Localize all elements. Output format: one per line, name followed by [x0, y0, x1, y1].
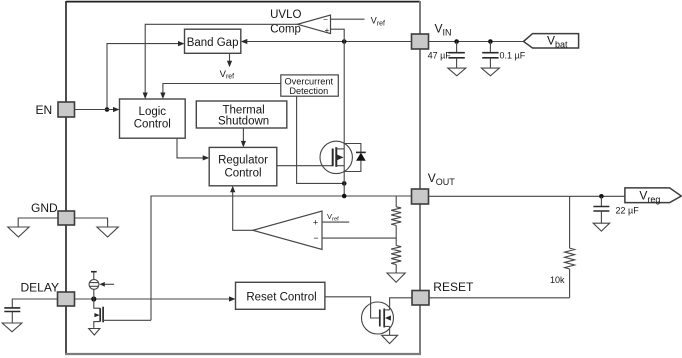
- svg-text:GND: GND: [31, 201, 58, 215]
- op-amp error comparator: [253, 211, 322, 250]
- net tag Vreg: [625, 188, 681, 203]
- wire: pass FET drain-source vertical: [343, 42, 345, 197]
- svg-text:Control: Control: [134, 118, 171, 130]
- ground (reset FET): [382, 335, 398, 343]
- wire: reset FET drain to RESET pin: [390, 298, 412, 310]
- svg-text:Shutdown: Shutdown: [218, 116, 269, 128]
- wire: divider mid: [395, 225, 397, 245]
- diode D1 body diode of pass FET: [344, 144, 361, 153]
- transistor Q1 pass PMOS: [320, 141, 352, 173]
- IC body outline: [66, 1, 420, 3]
- pin DELAY: [58, 292, 75, 306]
- pin VOUT: [412, 189, 429, 204]
- node: VOUT/pass junction: [342, 194, 347, 199]
- transistor Q2 delay discharge NMOS: [94, 299, 100, 308]
- svg-text:Comp: Comp: [270, 24, 301, 36]
- svg-text:Logic: Logic: [139, 106, 167, 118]
- wire: Regulator Control to pass FET gate: [277, 165, 333, 167]
- wire: UVLO output to Logic Control: [145, 24, 297, 94]
- wire: comparator output to Regulator Control: [233, 191, 253, 231]
- pin GND: [58, 211, 75, 225]
- wire: GND right ground: [75, 218, 108, 227]
- wire: Band Gap Vref output: [229, 53, 231, 62]
- node: EN junction: [105, 107, 110, 112]
- block Thermal Shutdown: [196, 101, 286, 128]
- svg-text:−: −: [313, 233, 318, 243]
- wire: Vref to UVLO comparator - input: [331, 18, 365, 20]
- wire: VIN rail inside chip to Band Gap: [246, 41, 411, 43]
- ground (divider): [387, 273, 405, 282]
- svg-text:Regulator: Regulator: [218, 154, 268, 166]
- wire: delay FET gate from VOUT rail: [103, 319, 151, 321]
- wire: DELAY to Reset Control: [75, 298, 231, 300]
- current source I1: [93, 289, 95, 299]
- node: sense junction: [342, 181, 347, 186]
- wire: RESET to pullup: [429, 297, 570, 299]
- wire: EN node to Band Gap input: [107, 44, 179, 110]
- node: 47uF junction: [454, 39, 459, 44]
- capacitor C3 22uF: [600, 196, 602, 206]
- wire: Logic Control to Regulator Control: [177, 138, 204, 158]
- wire: comparator - input to divider: [322, 237, 396, 239]
- wire: UVLO comparator + input to VIN rail: [331, 29, 345, 41]
- ground (delay cap): [2, 323, 22, 332]
- svg-text:Thermal: Thermal: [223, 104, 265, 116]
- svg-text:22 µF: 22 µF: [616, 205, 640, 215]
- capacitor C4 delay: [4, 307, 20, 309]
- pin EN: [58, 102, 75, 117]
- pin VIN: [412, 34, 429, 49]
- op-amp UVLO comparator: [298, 15, 331, 34]
- wire: reset FET source to ground: [389, 326, 391, 335]
- svg-text:Control: Control: [224, 168, 261, 180]
- capacitor C1 47uF: [456, 42, 458, 53]
- svg-text:−: −: [323, 15, 328, 24]
- wire: Reset Control to reset FET gate: [325, 297, 380, 318]
- svg-text:RESET: RESET: [433, 280, 474, 294]
- pin RESET: [412, 291, 429, 306]
- resistor block Band Gap: [185, 29, 241, 53]
- block Overcurrent Detection: [281, 75, 339, 96]
- wire: VOUT to Vreg: [429, 195, 625, 197]
- wire: comparator + input (Vref): [322, 221, 349, 223]
- capacitor C2 0.1uF: [489, 42, 491, 53]
- node: DELAY junction: [91, 296, 96, 301]
- ground (47uF): [448, 68, 466, 76]
- block Regulator Control: [209, 147, 277, 185]
- svg-text:Detection: Detection: [289, 86, 328, 96]
- block Logic Control: [120, 99, 186, 138]
- node: VIN internal junction: [342, 39, 347, 44]
- node: 0.1uF junction: [488, 39, 493, 44]
- block Reset Control: [236, 282, 325, 309]
- wire: Overcurrent Detection to Logic Control: [163, 84, 281, 95]
- wire: DELAY to external cap: [12, 299, 57, 308]
- ground (delay FET): [89, 329, 100, 336]
- resistor R3 10k pullup: [569, 196, 571, 248]
- ground (22uF): [593, 223, 609, 231]
- transistor Q3 reset open-drain NMOS: [362, 302, 394, 334]
- svg-text:EN: EN: [36, 103, 53, 117]
- net tag Vbat: [524, 34, 579, 48]
- wire: current source select arrow: [103, 283, 114, 285]
- wire: VIN to Vbat: [429, 41, 524, 43]
- wire: GND left ground: [18, 218, 58, 227]
- svg-text:Reset Control: Reset Control: [246, 292, 316, 304]
- svg-text:+: +: [325, 26, 330, 35]
- svg-text:DELAY: DELAY: [21, 280, 59, 294]
- node: 22uF junction: [599, 194, 604, 199]
- svg-text:+: +: [313, 217, 318, 227]
- svg-text:Band Gap: Band Gap: [187, 37, 239, 49]
- wire: VOUT rail: [151, 196, 412, 320]
- svg-text:UVLO: UVLO: [270, 9, 301, 21]
- ground (0.1uF): [481, 68, 499, 76]
- resistor R1 divider top: [395, 196, 397, 207]
- wire: EN to Logic Control: [75, 109, 115, 111]
- ground (GND right): [97, 227, 118, 237]
- svg-text:47 µF: 47 µF: [428, 51, 452, 61]
- svg-text:0.1 µF: 0.1 µF: [500, 51, 526, 61]
- svg-text:10k: 10k: [550, 275, 565, 285]
- wire: Thermal Shutdown to Regulator Control: [242, 128, 244, 142]
- resistor R2 divider bottom: [391, 246, 401, 265]
- ground (GND left): [8, 227, 29, 237]
- wire: overcurrent sense from pass FET drain: [297, 96, 345, 183]
